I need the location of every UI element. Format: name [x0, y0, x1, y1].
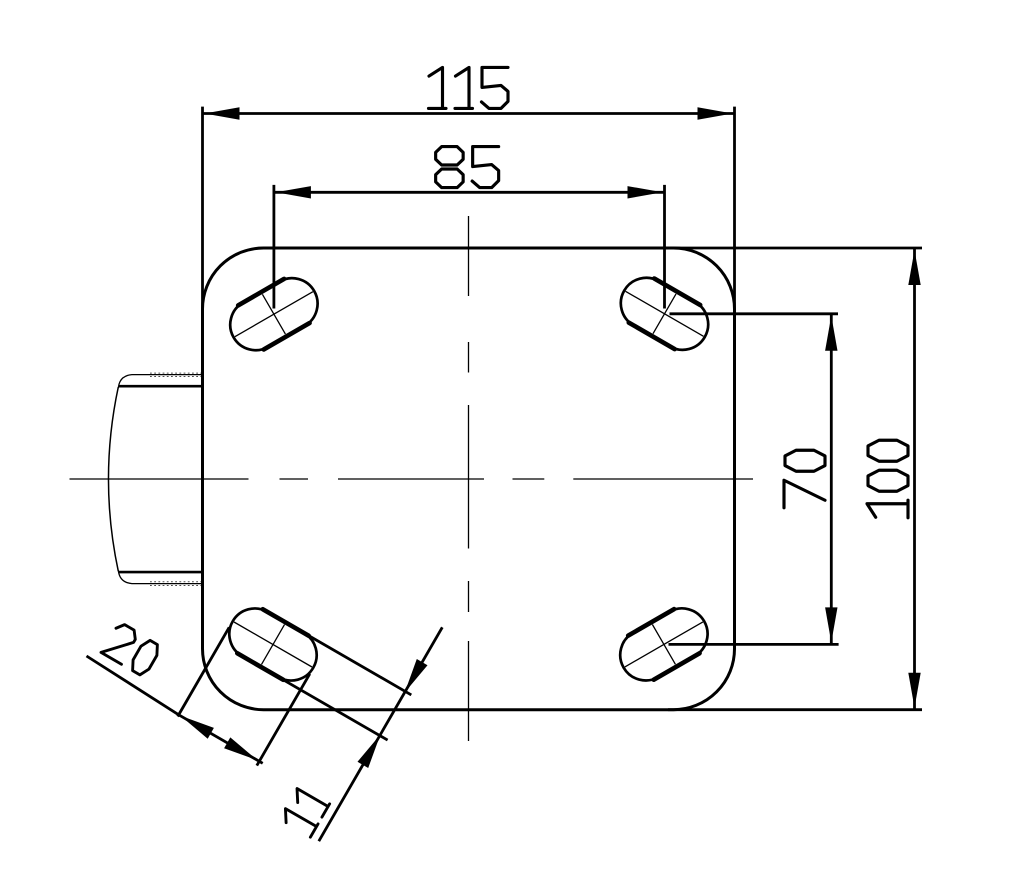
dimension 100: dimension line with arrows [908, 248, 920, 710]
dimension 115: extension lines [203, 107, 735, 310]
dimension text 100 (rotated) [867, 440, 908, 518]
dimension 85: dimension line with arrows [274, 186, 665, 198]
slot bottom-right (oval mounting hole) [620, 608, 707, 680]
centerline cross of slot top-left (oval mounting hole) [235, 292, 313, 337]
dimension text 11 (rotated -60deg) [279, 786, 329, 837]
dimension text 115 [429, 67, 509, 108]
centerline cross of slot bottom-left (oval mounting hole) [234, 622, 312, 667]
dimension text 20 (rotated 30deg) [101, 621, 162, 677]
dimension 70: dimension line with arrows [825, 314, 837, 645]
dimension 20: extension lines (perpendicular to slot axis) [178, 627, 310, 765]
dimension 100: extension lines [668, 248, 922, 710]
dimension 70: extension lines [669, 314, 839, 645]
dimension 11: dimension line with arrows outside [319, 627, 443, 841]
dimension text 70 (rotated) [784, 450, 825, 508]
dimension 115: dimension line with arrows [203, 107, 735, 119]
dimension 11: extension lines (collinear with slot sides) [280, 634, 411, 740]
dimension text 85 [436, 147, 499, 188]
vertical centerline (dash-dot) [468, 216, 470, 741]
mounting plate outline (top view, rounded rectangle) [203, 248, 735, 710]
centerline cross of slot top-right (oval mounting hole) [626, 291, 704, 336]
horizontal centerline (dash-dot) [70, 478, 754, 480]
slot top-left (oval mounting hole) [230, 278, 317, 350]
slot top-right (oval mounting hole) [621, 278, 708, 350]
centerline cross of slot bottom-right (oval mounting hole) [625, 622, 703, 667]
dimension 85: extension lines [274, 185, 665, 309]
dimension 20: dimension line with arrows [87, 656, 263, 763]
wheel side profile protruding left of plate [109, 373, 203, 585]
slot bottom-left (oval mounting hole) [229, 608, 316, 680]
